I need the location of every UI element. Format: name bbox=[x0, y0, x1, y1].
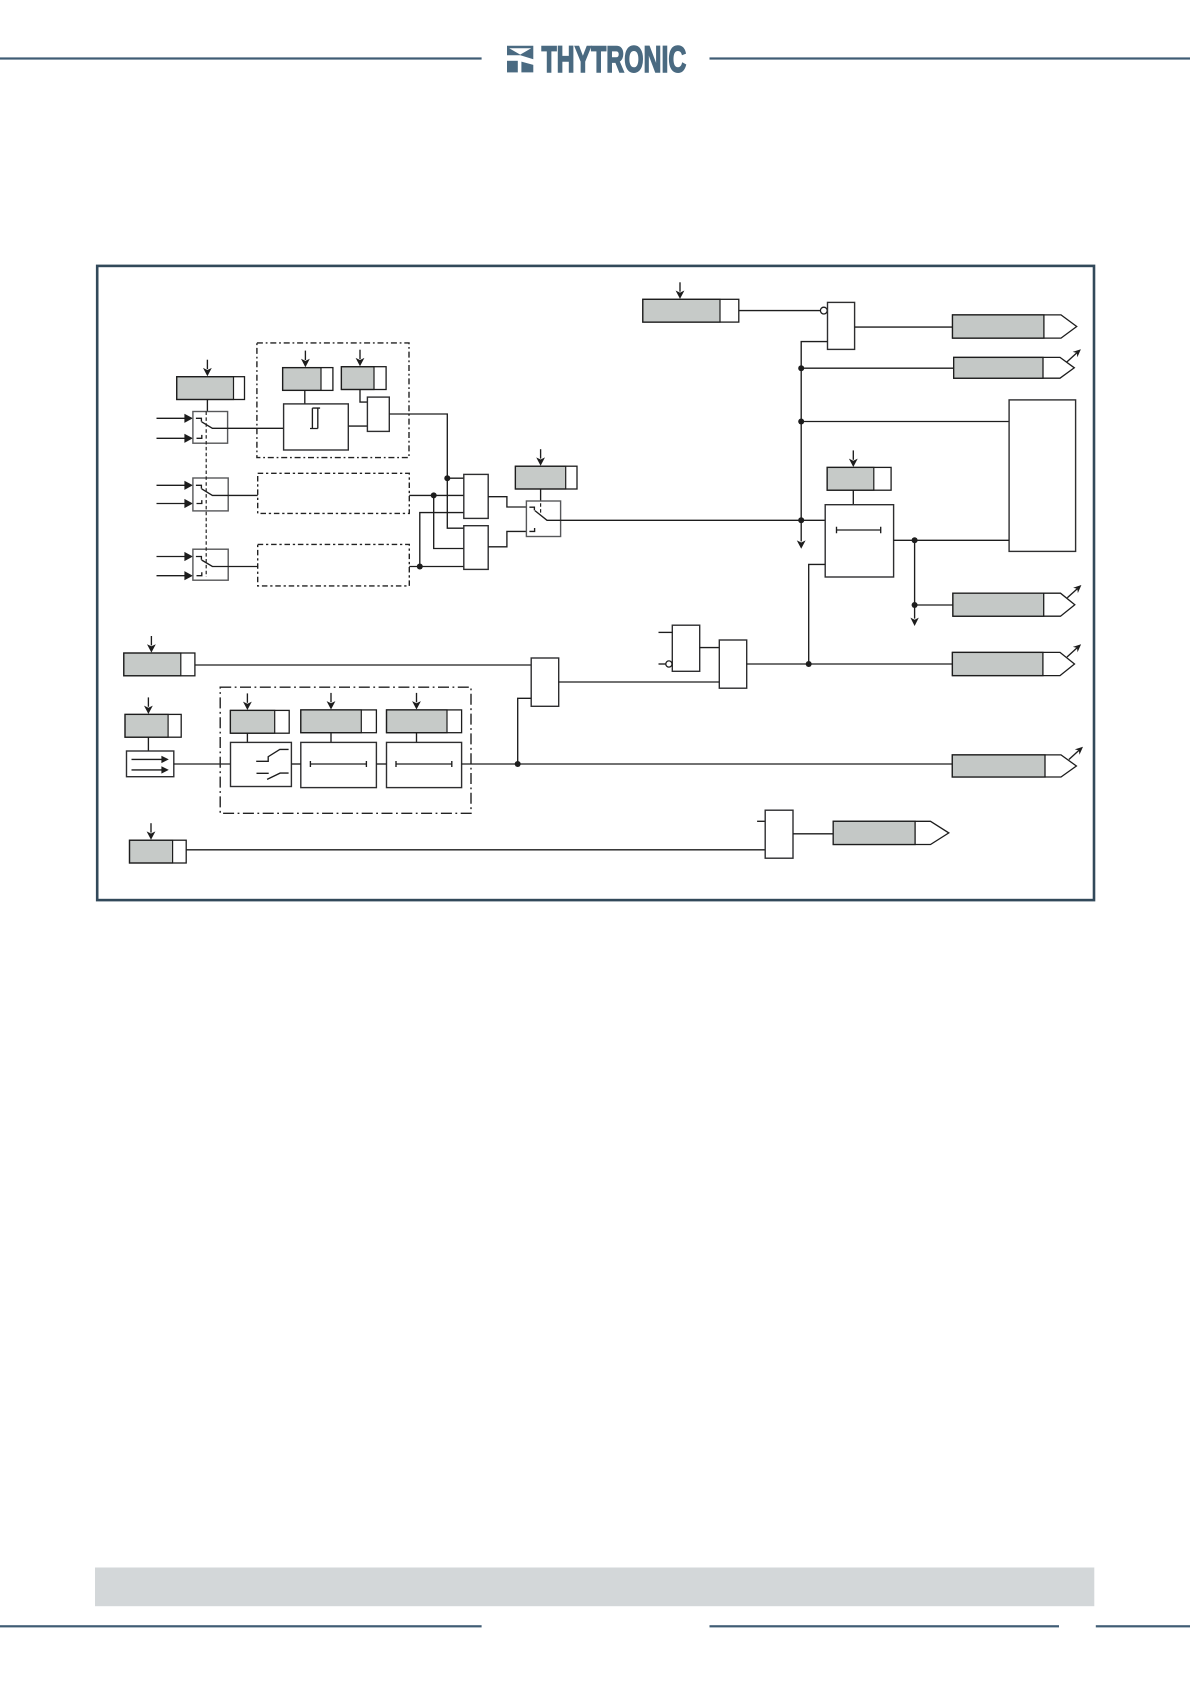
setting label G bbox=[341, 367, 386, 390]
footer rule middle segment bbox=[710, 1625, 1060, 1627]
setting arrow above top-left label bbox=[203, 360, 212, 377]
wire timer T3 to output arrow OA6 bbox=[462, 763, 953, 765]
gate L input stub a bbox=[659, 631, 673, 633]
timer block T3 bbox=[387, 742, 462, 787]
junction node bbox=[444, 475, 450, 481]
dash-dot group box DB4 bbox=[220, 687, 471, 813]
gate B bbox=[828, 302, 855, 349]
wire label E to switch E bbox=[540, 489, 542, 501]
wire bus to block N bbox=[801, 421, 1009, 423]
setting label S1 bbox=[230, 710, 289, 733]
timer block T2 bbox=[301, 742, 377, 787]
gate L input stub b bbox=[659, 663, 666, 665]
internal down arrow below OA3 junction bbox=[914, 605, 916, 619]
wire label P to gate Q bbox=[186, 849, 765, 851]
wire label G to block I bbox=[360, 390, 367, 403]
setting label F bbox=[283, 368, 333, 391]
input arrow SW3 b bbox=[157, 571, 193, 580]
wire label S3 to timer T3 bbox=[416, 733, 418, 743]
setting arrow above label F bbox=[301, 351, 310, 368]
OR gate V1 bbox=[464, 474, 488, 518]
setting arrow above label G bbox=[356, 350, 365, 367]
junction node bbox=[798, 517, 804, 523]
setting label S3 bbox=[387, 710, 462, 733]
function block I bbox=[367, 397, 389, 431]
wire SW2 to DB2 bbox=[228, 494, 258, 496]
wire label F to block H bbox=[304, 390, 306, 404]
junction node bbox=[798, 365, 804, 371]
input arrow SW2 a bbox=[157, 481, 193, 490]
setting label S2 bbox=[301, 710, 377, 733]
switch E bbox=[526, 501, 560, 537]
wire gate Q to output arrow OA5 bbox=[793, 833, 833, 835]
wire label to switch SW1 bbox=[206, 399, 208, 411]
dashed function box DB1 bbox=[257, 343, 409, 458]
junction node bbox=[515, 761, 521, 767]
wire block I to OR V1 and OR V2 bbox=[389, 414, 464, 528]
footer rule right segment bbox=[1096, 1625, 1190, 1627]
setting arrow above label C bbox=[849, 450, 858, 467]
setting label O (input function) bbox=[125, 714, 181, 737]
setting label E (measuring mode) bbox=[515, 466, 577, 489]
dashed selector control line bbox=[205, 412, 207, 578]
setting label J (binary input mode) bbox=[124, 653, 195, 676]
wire gate B lower input from vertical bus bbox=[801, 342, 827, 521]
wire gate K to gate M bbox=[559, 681, 720, 683]
footer rule left segment bbox=[0, 1625, 482, 1627]
setting arrow above label S3 bbox=[412, 693, 421, 710]
wire gate M to output arrow OA4 bbox=[747, 663, 953, 665]
output arrow OA2 (start signal) bbox=[954, 349, 1081, 378]
gate L (with inverted input) bbox=[672, 625, 699, 671]
input arrow SW1 a bbox=[157, 414, 193, 423]
setting arrow above label S2 bbox=[327, 693, 336, 710]
wire gate B to output arrow OA1 bbox=[855, 326, 953, 328]
gate M bbox=[719, 640, 746, 688]
wire V1 to switch E bbox=[488, 497, 526, 507]
junction node bbox=[431, 492, 437, 498]
junction node bbox=[806, 661, 812, 667]
switch SW1 bbox=[193, 412, 228, 444]
inverter circle at gate B input bbox=[820, 307, 827, 314]
setting arrow above label P bbox=[147, 823, 156, 840]
input arrow SW3 a bbox=[157, 552, 193, 561]
output arrow OA1 (trip signal) bbox=[953, 315, 1077, 338]
gate Q bbox=[765, 810, 793, 858]
dashed function box DB2 bbox=[258, 473, 410, 513]
wire SW3 to DB3 bbox=[228, 566, 258, 568]
setting arrow above label E bbox=[536, 449, 545, 466]
junction node bbox=[417, 564, 423, 570]
switch SW2 bbox=[193, 478, 228, 511]
wire SW1 to block H bbox=[228, 427, 284, 429]
wire label A to gate B bbox=[739, 310, 821, 312]
switch SW3 bbox=[193, 549, 228, 580]
wire DB2 to OR V1 and OR V2 bbox=[409, 495, 464, 548]
svg-text:THYTRONIC: THYTRONIC bbox=[542, 38, 687, 80]
wire bus to output arrow OA2 bbox=[801, 367, 954, 369]
gate Q input stub bbox=[757, 820, 765, 822]
wire label J to gate K bbox=[195, 664, 531, 666]
setting label top-left (input selector setting) bbox=[177, 377, 245, 400]
wire block T1 to T2 bbox=[291, 763, 300, 765]
setting label A (block/enable) bbox=[643, 299, 739, 322]
contact block T1 bbox=[231, 742, 292, 786]
input arrow SW2 b bbox=[157, 499, 193, 508]
wire label S2 to timer T2 bbox=[330, 733, 332, 743]
output arrow OA6 bbox=[952, 747, 1083, 777]
function block N (output logic) bbox=[1009, 400, 1076, 552]
junction node bbox=[798, 419, 804, 425]
output arrow OA5 bbox=[833, 821, 949, 844]
input arrow SW1 b bbox=[157, 434, 193, 443]
wire gate K lower input from chain bbox=[518, 698, 532, 764]
wire block T2 to T3 bbox=[376, 763, 386, 765]
wire timer D to block N bbox=[894, 539, 1010, 541]
inverter circle at gate L input bbox=[666, 661, 672, 667]
dashed function box DB3 bbox=[258, 544, 410, 586]
wire timer D lower input from signal bus bbox=[809, 564, 826, 664]
timer block D bbox=[825, 505, 893, 577]
setting arrow above label J bbox=[147, 636, 156, 653]
footer highlight bar bbox=[95, 1568, 1094, 1607]
setting label P (output mode) bbox=[130, 840, 187, 863]
setting arrow above label O bbox=[144, 697, 153, 714]
diagram outer frame bbox=[97, 266, 1094, 900]
gate K bbox=[531, 658, 559, 706]
THYTRONIC logo mark bbox=[507, 46, 533, 73]
wire gate L to gate M bbox=[700, 647, 720, 649]
wire DB3 to OR V2 and OR V1 bbox=[409, 513, 464, 567]
output arrow OA4 bbox=[952, 644, 1081, 675]
wire junction down to OA3 bbox=[915, 540, 953, 605]
wire switch E to timer D bbox=[561, 519, 826, 521]
OR gate V2 bbox=[464, 526, 488, 570]
header rule left segment bbox=[0, 57, 482, 59]
wire block H to block I bbox=[348, 425, 367, 427]
setting arrow above label S1 bbox=[243, 693, 252, 710]
wire label C to timer D bbox=[852, 490, 854, 505]
junction node bbox=[912, 537, 918, 543]
wire label S1 to block T1 bbox=[246, 733, 248, 742]
block R (binary inputs) bbox=[127, 751, 174, 777]
internal down arrow below junction bbox=[800, 520, 802, 541]
wire block R to contact block T1 bbox=[174, 763, 231, 765]
setting label C (timer setting) bbox=[827, 467, 891, 490]
setting arrow above label A bbox=[676, 282, 685, 299]
wire V2 to switch E bbox=[488, 531, 526, 546]
output arrow OA3 bbox=[953, 585, 1082, 616]
wire label O to block R bbox=[147, 737, 149, 751]
header rule right segment bbox=[710, 57, 1190, 59]
function block H (threshold with pulse symbol) bbox=[284, 404, 349, 450]
junction node bbox=[912, 602, 918, 608]
